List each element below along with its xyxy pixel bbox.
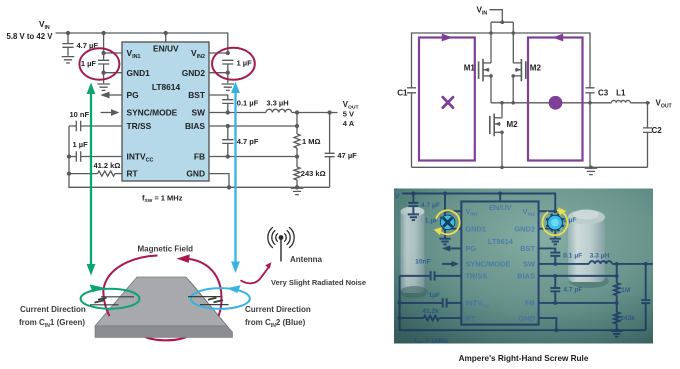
- svg-text:GND: GND: [186, 169, 205, 179]
- svg-text:C1: C1: [397, 89, 408, 98]
- svg-text:L1: L1: [616, 89, 626, 98]
- svg-text:SW: SW: [192, 108, 206, 118]
- svg-text:M2: M2: [507, 120, 519, 129]
- svg-text:4.7 pF: 4.7 pF: [237, 137, 259, 146]
- svg-text:Very Slight Radiated Noise: Very Slight Radiated Noise: [271, 278, 366, 287]
- svg-text:243 kΩ: 243 kΩ: [301, 169, 326, 178]
- svg-text:Current Direction: Current Direction: [20, 305, 86, 314]
- svg-text:5 V: 5 V: [343, 109, 354, 118]
- svg-text:FB: FB: [194, 152, 205, 162]
- svg-text:LT8614: LT8614: [152, 82, 181, 92]
- svg-text:GND2: GND2: [182, 68, 206, 78]
- svg-text:GND1: GND1: [127, 68, 151, 78]
- svg-text:M2: M2: [530, 64, 542, 73]
- svg-text:BIAS: BIAS: [185, 121, 205, 131]
- svg-text:Magnetic Field: Magnetic Field: [138, 245, 194, 254]
- svg-text:PG: PG: [127, 90, 139, 100]
- svg-text:47 µF: 47 µF: [337, 151, 357, 160]
- svg-text:SYNC/MODE: SYNC/MODE: [127, 108, 178, 118]
- svg-text:5.8 V to 42 V: 5.8 V to 42 V: [7, 32, 54, 41]
- svg-text:Ampere's Right-Hand Screw Rule: Ampere's Right-Hand Screw Rule: [459, 354, 589, 363]
- svg-text:0.1 µF: 0.1 µF: [237, 98, 259, 107]
- svg-text:1 µF: 1 µF: [73, 140, 89, 149]
- svg-text:Antenna: Antenna: [290, 255, 323, 264]
- svg-text:Current Direction: Current Direction: [245, 305, 311, 314]
- svg-text:10 nF: 10 nF: [70, 110, 90, 119]
- svg-text:TR/SS: TR/SS: [127, 121, 152, 131]
- svg-text:C2: C2: [652, 126, 663, 135]
- svg-text:RT: RT: [127, 169, 139, 179]
- svg-text:EN/UV: EN/UV: [153, 44, 179, 54]
- svg-text:3.3 µH: 3.3 µH: [266, 98, 288, 107]
- svg-text:4 A: 4 A: [343, 119, 355, 128]
- svg-text:1 µF: 1 µF: [237, 58, 253, 67]
- svg-text:C3: C3: [598, 89, 609, 98]
- svg-text:BST: BST: [188, 90, 206, 100]
- svg-text:41.2 kΩ: 41.2 kΩ: [94, 161, 121, 170]
- svg-text:1 MΩ: 1 MΩ: [302, 137, 321, 146]
- svg-text:M1: M1: [464, 64, 476, 73]
- svg-text:1 µF: 1 µF: [81, 59, 97, 68]
